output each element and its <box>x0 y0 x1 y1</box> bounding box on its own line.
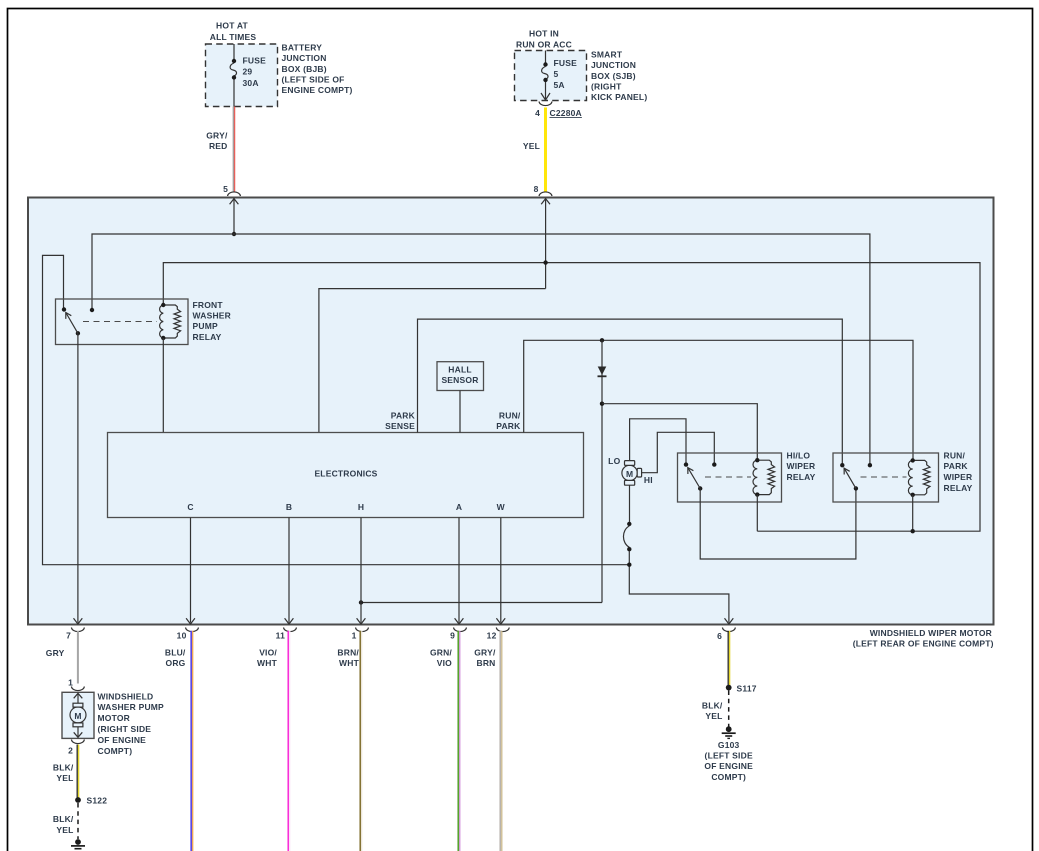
svg-text:RELAY: RELAY <box>944 483 973 493</box>
svg-text:29: 29 <box>243 67 253 77</box>
svg-text:(LEFT SIDE: (LEFT SIDE <box>705 751 753 761</box>
node diode bottom junction <box>600 402 604 406</box>
svg-text:(LEFT REAR OF ENGINE COMPT): (LEFT REAR OF ENGINE COMPT) <box>853 639 994 649</box>
svg-text:WIPER: WIPER <box>787 461 816 471</box>
label front washer pump relay <box>193 300 232 342</box>
label BLK/YEL 2 <box>53 814 74 835</box>
svg-text:HI: HI <box>644 475 653 485</box>
svg-text:C2280A: C2280A <box>550 108 582 118</box>
wire park sense <box>418 319 843 465</box>
svg-text:2: 2 <box>68 746 73 756</box>
front washer pump relay U1 <box>56 299 189 345</box>
hall sensor U3 <box>437 362 484 391</box>
pin 6 connector <box>717 628 735 642</box>
svg-text:COMPT): COMPT) <box>711 772 746 782</box>
svg-text:9: 9 <box>450 631 455 641</box>
label run/park wiper relay <box>944 450 973 492</box>
wire BLK/YEL dashed to G103 <box>728 691 730 727</box>
svg-text:BLK/: BLK/ <box>53 814 74 824</box>
label BLK/YEL pin6 <box>702 700 723 721</box>
svg-text:WINDSHIELD WIPER MOTOR: WINDSHIELD WIPER MOTOR <box>870 628 992 638</box>
wire BLK/YEL dashed to ground <box>77 803 79 839</box>
svg-text:HI/LO: HI/LO <box>787 450 811 460</box>
wire YEL <box>544 108 547 193</box>
pin 1 connector wiper <box>352 628 369 641</box>
label GRY/BRN <box>474 647 496 668</box>
svg-text:JUNCTION: JUNCTION <box>282 53 327 63</box>
fuse 29 30A <box>230 44 266 107</box>
svg-text:5: 5 <box>223 184 228 194</box>
wire washer coil to electronics <box>162 338 164 433</box>
electronics module U2 <box>108 433 584 518</box>
svg-text:RELAY: RELAY <box>787 472 816 482</box>
wire GRN/VIO <box>458 631 460 851</box>
svg-text:VIO: VIO <box>437 658 452 668</box>
wire H junction to diode branch <box>359 600 602 604</box>
svg-text:W: W <box>497 502 506 512</box>
svg-text:PARK: PARK <box>496 421 521 431</box>
svg-text:1: 1 <box>352 631 357 641</box>
pin 5 arrow <box>230 199 239 234</box>
svg-text:S117: S117 <box>737 683 757 693</box>
fuse 5 5A <box>541 51 577 101</box>
svg-text:M: M <box>74 711 81 721</box>
wire ground link <box>43 255 629 564</box>
svg-text:PARK: PARK <box>391 410 416 420</box>
pin 8 arrow <box>541 199 550 289</box>
svg-text:RUN/: RUN/ <box>944 450 966 460</box>
svg-text:OF ENGINE: OF ENGINE <box>704 761 753 771</box>
svg-text:BLU/: BLU/ <box>165 647 186 657</box>
svg-text:FUSE: FUSE <box>554 58 578 68</box>
wire coil feed bus <box>163 263 980 532</box>
wire pin8 to electronics <box>319 289 546 433</box>
label BLU/ORG <box>165 647 186 668</box>
svg-text:BOX (SJB): BOX (SJB) <box>591 71 636 81</box>
svg-text:BATTERY: BATTERY <box>282 43 323 53</box>
label HOT AT ALL TIMES <box>210 21 257 42</box>
pin 11 connector <box>276 628 297 641</box>
svg-text:WHT: WHT <box>339 658 360 668</box>
label VIO/WHT <box>257 647 278 668</box>
svg-text:COMPT): COMPT) <box>98 746 133 756</box>
node diode top junction <box>600 338 604 342</box>
svg-text:YEL: YEL <box>56 773 73 783</box>
svg-text:VIO/: VIO/ <box>259 647 277 657</box>
svg-text:JUNCTION: JUNCTION <box>591 60 636 70</box>
svg-text:(RIGHT SIDE: (RIGHT SIDE <box>98 724 152 734</box>
wire washer relay pivot to pin 7 <box>77 333 79 622</box>
wire BLK/YEL washer <box>77 745 78 798</box>
svg-text:(LEFT SIDE OF: (LEFT SIDE OF <box>282 74 345 84</box>
pin 2 connector washer pump <box>68 740 84 756</box>
svg-text:HALL: HALL <box>448 365 471 375</box>
svg-text:GRY: GRY <box>46 648 65 658</box>
wire electronics C to pin 10 <box>190 518 192 623</box>
wire motor HI to hi/lo relay <box>642 432 715 472</box>
svg-text:30A: 30A <box>243 78 259 88</box>
wire motor LO to hi/lo relay <box>630 419 686 465</box>
svg-text:YEL: YEL <box>56 825 73 835</box>
svg-text:WINDSHIELD: WINDSHIELD <box>98 691 154 701</box>
svg-text:11: 11 <box>276 631 285 641</box>
ground G103 <box>722 726 736 738</box>
pin 7 connector <box>66 628 84 641</box>
svg-text:(RIGHT: (RIGHT <box>591 81 622 91</box>
svg-text:S122: S122 <box>87 796 108 806</box>
svg-text:C: C <box>187 502 193 512</box>
wire BRN/WHT <box>360 631 362 851</box>
exit arrows at bottom edge <box>74 618 734 624</box>
svg-text:PARK: PARK <box>944 461 969 471</box>
wire electronics A to pin 9 <box>458 518 460 623</box>
svg-text:A: A <box>456 502 462 512</box>
label windshield wiper motor <box>853 628 994 649</box>
svg-text:ENGINE COMPT): ENGINE COMPT) <box>282 85 353 95</box>
svg-text:BRN: BRN <box>476 658 495 668</box>
label BLK/YEL <box>53 763 74 784</box>
svg-text:YEL: YEL <box>523 141 540 151</box>
pin 12 connector <box>487 628 510 641</box>
windshield washer pump motor M2 <box>62 692 94 738</box>
label run/park <box>496 410 521 431</box>
wire VIO/WHT <box>288 631 290 851</box>
pin 10 connector <box>177 628 199 641</box>
wire GRY <box>77 631 79 684</box>
svg-text:RELAY: RELAY <box>193 332 222 342</box>
svg-text:WIPER: WIPER <box>944 472 973 482</box>
label G103 <box>704 740 753 782</box>
svg-text:6: 6 <box>717 631 722 641</box>
svg-text:ALL TIMES: ALL TIMES <box>210 32 257 42</box>
label HOT IN RUN OR ACC <box>516 28 572 49</box>
svg-text:RED: RED <box>209 141 228 151</box>
wire diode to hi/lo coil <box>602 404 757 461</box>
svg-text:M: M <box>626 469 633 479</box>
svg-text:HOT AT: HOT AT <box>216 21 248 31</box>
windshield wiper motor assembly box <box>28 198 994 625</box>
wire motor ground branch with breaker <box>623 485 728 622</box>
svg-text:HOT IN: HOT IN <box>529 28 559 38</box>
label GRN/VIO <box>430 647 452 668</box>
run/park wiper relay U5 <box>833 453 939 502</box>
svg-text:1: 1 <box>68 678 73 688</box>
svg-text:H: H <box>358 502 364 512</box>
diode D1 <box>598 340 607 602</box>
wire electronics B to pin 11 <box>288 518 290 623</box>
svg-text:8: 8 <box>534 184 539 194</box>
splice S117 <box>726 683 757 693</box>
svg-text:10: 10 <box>177 631 187 641</box>
wire BLK/YEL pin6 <box>728 631 729 685</box>
wire hot bus B+ <box>92 234 870 465</box>
svg-text:7: 7 <box>66 631 71 641</box>
svg-text:MOTOR: MOTOR <box>98 713 130 723</box>
splice S122 <box>75 796 107 806</box>
svg-text:ORG: ORG <box>166 658 186 668</box>
wire BLU/ORG <box>191 631 193 851</box>
svg-text:GRY/: GRY/ <box>474 647 496 657</box>
svg-text:WASHER: WASHER <box>193 311 232 321</box>
svg-text:RUN/: RUN/ <box>499 410 521 420</box>
wire hall sensor to electronics <box>459 391 461 433</box>
svg-text:WASHER PUMP: WASHER PUMP <box>98 702 165 712</box>
ground S122 branch <box>71 839 85 849</box>
svg-text:5A: 5A <box>554 80 565 90</box>
svg-text:12: 12 <box>487 631 497 641</box>
pin 9 connector <box>450 628 466 641</box>
svg-text:SENSE: SENSE <box>385 421 415 431</box>
svg-text:SENSOR: SENSOR <box>441 375 478 385</box>
pin 8 connector <box>534 184 552 196</box>
label GRY/RED <box>206 131 228 152</box>
svg-text:PUMP: PUMP <box>193 321 218 331</box>
label hi/lo wiper relay <box>787 450 816 482</box>
svg-text:5: 5 <box>554 69 559 79</box>
svg-text:WHT: WHT <box>257 658 278 668</box>
wire GRY/BRN <box>500 631 502 851</box>
svg-text:4: 4 <box>535 108 540 118</box>
pin 1 connector washer pump <box>68 678 84 691</box>
svg-text:G103: G103 <box>718 740 740 750</box>
label park sense <box>385 410 415 431</box>
pin 5 connector <box>223 184 240 196</box>
svg-text:LO: LO <box>608 456 620 466</box>
wire relay pivots link <box>700 488 856 559</box>
wire electronics H to pin 1 <box>360 518 362 623</box>
wire electronics W to pin 12 <box>500 518 502 623</box>
node pin5 junction on hot bus <box>232 232 236 236</box>
node pin8 junction on coil bus <box>543 260 547 264</box>
svg-text:BRN/: BRN/ <box>337 647 359 657</box>
svg-text:YEL: YEL <box>705 711 722 721</box>
battery junction box (dashed) <box>206 44 278 107</box>
svg-text:BOX (BJB): BOX (BJB) <box>282 64 327 74</box>
label battery junction box <box>282 43 353 95</box>
svg-text:RUN OR ACC: RUN OR ACC <box>516 39 572 49</box>
svg-text:FUSE: FUSE <box>243 56 267 66</box>
wire run/park coil bottom <box>911 495 915 534</box>
svg-text:GRN/: GRN/ <box>430 647 452 657</box>
svg-text:ELECTRONICS: ELECTRONICS <box>314 468 377 478</box>
svg-text:B: B <box>286 502 292 512</box>
svg-text:GRY/: GRY/ <box>206 131 228 141</box>
smart junction box (dashed) <box>515 51 587 101</box>
wire GRY/RED <box>233 107 234 193</box>
label windshield washer pump motor <box>98 691 165 756</box>
hi/lo wiper relay U4 <box>678 453 782 502</box>
wire run/park net <box>524 340 913 460</box>
svg-text:BLK/: BLK/ <box>53 763 74 773</box>
wire hi/lo coil bottom <box>756 495 758 532</box>
svg-text:OF ENGINE: OF ENGINE <box>98 735 147 745</box>
label BRN/WHT <box>337 647 359 668</box>
wiper motor M1 <box>622 461 642 486</box>
connector C2280A pin 4 <box>535 102 582 119</box>
label smart junction box <box>591 50 647 102</box>
svg-text:SMART: SMART <box>591 50 623 60</box>
svg-text:FRONT: FRONT <box>193 300 224 310</box>
svg-text:BLK/: BLK/ <box>702 700 723 710</box>
svg-text:KICK PANEL): KICK PANEL) <box>591 92 647 102</box>
